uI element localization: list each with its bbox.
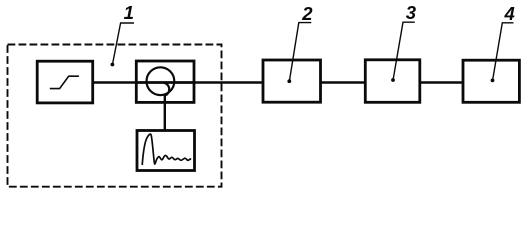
svg-text:1: 1 [124, 2, 134, 23]
svg-text:4: 4 [504, 3, 515, 24]
svg-text:2: 2 [301, 3, 313, 24]
svg-text:3: 3 [406, 2, 417, 23]
